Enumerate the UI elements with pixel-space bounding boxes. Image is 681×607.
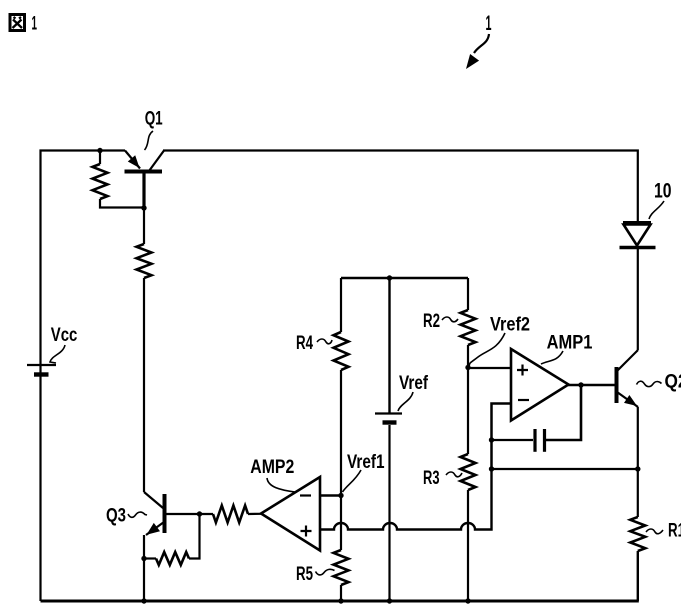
- wire AMP1 output to Q2 base: [568, 384, 615, 387]
- wire AMP2 output to resistor: [248, 513, 261, 515]
- wire left rail below battery to bottom: [39, 377, 41, 601]
- op-amp AMP2: [261, 477, 320, 551]
- label Q3 with leader: [106, 506, 147, 527]
- resistor R5: [334, 496, 349, 602]
- resistor R4: [334, 278, 349, 496]
- wire AMP1 inverting input: [492, 404, 512, 441]
- node dot on top rail at Q1 bias resistor tap: [97, 148, 102, 153]
- svg-text:R2: R2: [423, 311, 440, 332]
- wire top rail left segment (Vcc to Q1 emitter): [41, 151, 126, 378]
- wire capacitor right lead to AMP1 output: [546, 385, 581, 440]
- label AMP1 with leader: [541, 332, 593, 364]
- wire reference top rail (R4, Vref battery, R2): [341, 277, 468, 279]
- transistor Q2: [617, 350, 639, 407]
- wire right rail Q2 emitter to R1: [637, 407, 639, 517]
- figure label ZU 1 (boxed kanji): [10, 15, 25, 31]
- node dot bottom rail at R3: [465, 598, 470, 603]
- label R5 with leader: [296, 564, 335, 585]
- label AMP2 with leader: [250, 457, 295, 492]
- wire bottom rail: [41, 600, 639, 603]
- label R2 with leader: [423, 311, 458, 332]
- label Vref with leader: [398, 373, 428, 411]
- svg-text:Q3: Q3: [106, 506, 126, 527]
- label Vref2 with leader: [469, 315, 530, 367]
- svg-text:AMP1: AMP1: [547, 332, 593, 353]
- node dot Q3 base wire junction: [197, 511, 202, 516]
- wire sense line to R1 top: [492, 468, 638, 470]
- svg-text:Vref: Vref: [399, 373, 428, 394]
- label R4 with leader: [296, 333, 332, 354]
- svg-text:Q2: Q2: [665, 372, 681, 393]
- wire AMP2 non-inverting input with crossover hops to feedback node: [320, 469, 492, 530]
- resistor R2: [461, 278, 476, 368]
- resistor R1: [630, 517, 645, 601]
- node dot Q1 base / bias resistor junction: [141, 205, 146, 210]
- wire top rail right segment (Q1 collector to diode): [163, 151, 638, 223]
- capacitor (compensation, unlabelled): [535, 429, 545, 452]
- label Vcc with leader: [50, 325, 78, 363]
- svg-text:Vcc: Vcc: [51, 325, 78, 346]
- svg-text:R1: R1: [668, 521, 681, 542]
- svg-text:Vref1: Vref1: [347, 452, 385, 473]
- node dot Vref battery top: [387, 275, 392, 280]
- diode 10 (LED/load diode): [620, 223, 656, 248]
- node dot feedback / R1 sense junction: [489, 466, 494, 471]
- resistor Q1 base series (unlabelled, to Q3): [137, 208, 152, 492]
- resistor AMP2 output to Q3 base (unlabelled): [213, 506, 248, 523]
- node dot R1 top on right rail: [635, 466, 640, 471]
- wire AMP2 inverting input to Vref1 node: [320, 494, 341, 497]
- transistor Q1 (PNP pass transistor): [125, 151, 165, 209]
- node dot capacitor left junction: [489, 437, 494, 442]
- wire right rail diode to Q2 collector: [637, 248, 639, 350]
- node dot bottom rail at Vref branch: [387, 598, 392, 603]
- resistor Q3 base-emitter (unlabelled): [144, 514, 200, 565]
- label R1 with leader: [646, 521, 681, 542]
- resistor R3: [461, 368, 476, 602]
- wire feedback node down: [490, 440, 493, 469]
- svg-text:10: 10: [654, 180, 672, 203]
- node dot AMP1 output / feedback tap: [578, 382, 583, 387]
- svg-text:R5: R5: [296, 564, 313, 585]
- node dot bottom rail at R5: [338, 598, 343, 603]
- label Vref1 with leader: [343, 452, 385, 492]
- svg-text:AMP2: AMP2: [250, 457, 294, 478]
- battery Vref: [375, 278, 402, 601]
- svg-text:1: 1: [32, 14, 38, 35]
- node dot bottom rail at Q3 branch: [141, 598, 146, 603]
- svg-text:Vref2: Vref2: [490, 315, 530, 336]
- transistor Q3: [144, 492, 213, 601]
- node Vref2 dot: [465, 365, 470, 370]
- node Vref1 dot: [338, 493, 343, 498]
- op-amp AMP1: [511, 349, 569, 421]
- node dot Q3 emitter / resistor junction: [141, 556, 146, 561]
- battery Vcc: [27, 365, 56, 375]
- resistor Q1 emitter-base bias (unlabelled): [93, 151, 144, 208]
- svg-text:R4: R4: [296, 333, 313, 354]
- label Q1 with leader: [145, 109, 163, 151]
- label Q2 with leader: [637, 372, 681, 393]
- wire capacitor left lead: [492, 439, 534, 441]
- svg-text:Q1: Q1: [145, 109, 163, 130]
- svg-text:R3: R3: [423, 468, 440, 489]
- svg-text:1: 1: [486, 12, 492, 35]
- label 10 with leader: [649, 180, 672, 220]
- label R3 with leader: [423, 468, 462, 489]
- reference numeral 1 with leader arrow: [466, 12, 492, 69]
- wire Vref2 node to AMP1 non-inverting input: [468, 367, 511, 369]
